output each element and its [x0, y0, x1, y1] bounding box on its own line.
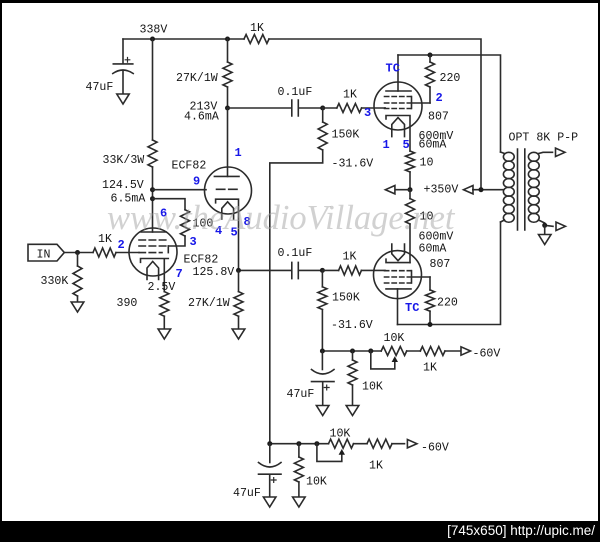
resistor R11 10 (cathode, top 807): [406, 151, 415, 172]
svg-text:125.8V: 125.8V: [193, 266, 235, 279]
svg-text:150K: 150K: [332, 129, 360, 142]
connector arrow +350V (right, to OPT CT): [464, 186, 474, 194]
resistor R20 10K (lower bias bleed): [298, 444, 300, 457]
svg-text:10K: 10K: [330, 428, 351, 441]
svg-text:1K: 1K: [343, 89, 357, 102]
node: rail / 27K branch: [225, 37, 230, 42]
svg-text:-31.6V: -31.6V: [331, 319, 373, 332]
ground (under 330K): [71, 302, 84, 312]
wire: triode grid: [153, 189, 207, 191]
ground (OPT secondary): [539, 235, 552, 245]
op... triode V1b ECF82 (circle): [205, 167, 252, 214]
svg-text:1K: 1K: [250, 22, 264, 35]
OPT secondary winding: [528, 152, 552, 225]
heater chevron (bottom 807): [392, 244, 405, 261]
svg-text:2: 2: [118, 238, 125, 252]
svg-text:1: 1: [383, 138, 390, 152]
resistor R6 1K (grid stopper): [93, 248, 116, 257]
pentode V1a ECF82 (circle): [129, 228, 177, 276]
svg-text:60mA: 60mA: [419, 243, 447, 256]
node: 47uF branch: [267, 441, 272, 446]
plate/top-cap lead down: [397, 289, 399, 325]
svg-text:10K: 10K: [384, 332, 405, 345]
resistor R17 1K (upper bias feed): [420, 347, 445, 356]
node: 338V rail / 33K branch: [150, 37, 155, 42]
resistor R5 390 (cathode): [160, 292, 169, 317]
svg-text:47uF: 47uF: [233, 487, 261, 500]
svg-text:124.5V: 124.5V: [102, 179, 144, 192]
svg-text:47uF: 47uF: [86, 81, 114, 94]
footer bar: [0, 521, 600, 542]
svg-text:-60V: -60V: [421, 442, 449, 455]
capacitor C1 47uF (input supply filter): [113, 39, 133, 94]
connector arrow output +: [556, 148, 566, 156]
tube V3 bottom 807 (circle): [374, 251, 422, 299]
ground (under C5): [263, 497, 276, 507]
svg-text:47uF: 47uF: [287, 388, 315, 401]
capacitor C2 0.1uF (upper coupling): [228, 100, 323, 116]
node: 10K branch: [296, 441, 301, 446]
wire: lower bias rail: [270, 443, 405, 445]
cathode bar + lead (top 807): [386, 116, 410, 152]
svg-text:33K/3W: 33K/3W: [103, 154, 145, 167]
connector arrow output -: [556, 222, 566, 230]
node: pentode plate / 100R: [150, 196, 155, 201]
ground (under 390): [158, 329, 171, 339]
node: 10K branch: [350, 349, 355, 354]
node: 125.8V cathode node: [236, 268, 241, 273]
connector arrow -60V (upper): [461, 347, 471, 355]
ground (under 27K/1W): [232, 329, 245, 339]
svg-text:60mA: 60mA: [419, 139, 447, 152]
svg-text:338V: 338V: [140, 24, 168, 37]
svg-text:ECF82: ECF82: [184, 254, 219, 267]
svg-text:2: 2: [436, 91, 443, 105]
node: lower coupling: [320, 268, 325, 273]
svg-text:1K: 1K: [343, 251, 357, 264]
svg-text:220: 220: [437, 297, 458, 310]
potentiometer 10K (upper bias): [381, 347, 407, 356]
svg-text:1K: 1K: [369, 460, 383, 473]
connector arrow -60V (lower): [407, 440, 417, 448]
pentode screen bracket: [167, 246, 169, 253]
svg-text:390: 390: [117, 297, 138, 310]
wire: bottom top-cap to OPT primary bottom: [398, 222, 501, 325]
wire: g1 into tube: [384, 107, 386, 109]
node: pot terminal: [314, 441, 319, 446]
pentode plate bar: [141, 231, 166, 233]
svg-text:330K: 330K: [41, 275, 69, 288]
svg-text:4.6mA: 4.6mA: [184, 111, 219, 124]
pentode cathode bar + lead pin 7: [141, 259, 169, 292]
resistor R8 1K (g1 stopper top 807): [323, 107, 385, 109]
resistor R12 10 (cathode, bottom 807): [409, 190, 411, 199]
node: pentode plate / triode grid: [150, 187, 155, 192]
svg-text:7: 7: [176, 267, 183, 281]
svg-text:1: 1: [235, 146, 242, 160]
resistor R14 1K (g1 stopper bottom 807): [322, 269, 385, 271]
svg-text:9: 9: [193, 175, 200, 189]
resistor R3 33K/3W: [152, 39, 154, 140]
capacitor C3 0.1uF (lower coupling): [239, 262, 323, 278]
svg-text:TC: TC: [386, 62, 400, 76]
svg-text:ECF82: ECF82: [172, 160, 207, 173]
svg-text:220: 220: [440, 72, 461, 85]
pentode heater chevron: [147, 261, 159, 279]
resistor R13 27K/1W (lower): [238, 270, 240, 291]
tube V2 top 807 (circle): [374, 82, 422, 130]
svg-text:27K/1W: 27K/1W: [176, 72, 218, 85]
triode heater chevron pins 4,5: [222, 202, 234, 219]
node: 220 bottom: [428, 322, 433, 327]
node: 220 top: [428, 53, 433, 58]
svg-text:10K: 10K: [306, 476, 327, 489]
resistor R15 150K (lower grid return): [321, 270, 323, 286]
node: input: [75, 250, 80, 255]
svg-text:2.5V: 2.5V: [148, 281, 176, 294]
svg-text:0.1uF: 0.1uF: [278, 247, 313, 260]
svg-text:5: 5: [403, 138, 410, 152]
node: OPT center tap feed: [479, 187, 484, 192]
wire: input: [64, 252, 93, 254]
OPT primary winding: [501, 152, 515, 222]
grid dashes (top 807): [385, 96, 412, 98]
wire: to bias (-31.6V) long drop: [270, 150, 323, 444]
resistor R7 330K (grid leak): [77, 253, 79, 267]
node: pot terminal: [368, 349, 373, 354]
svg-text:807: 807: [428, 111, 449, 124]
capacitor C5 47uF (lower bias filter): [269, 444, 271, 463]
watermark www.theAudioVillage.net: [107, 199, 527, 238]
node: 47uF branch: [320, 349, 325, 354]
svg-text:-31.6V: -31.6V: [332, 158, 374, 171]
triode plate lead: [227, 108, 229, 176]
connector arrow +350V (left): [395, 189, 410, 191]
svg-text:3: 3: [364, 106, 371, 120]
capacitor C4 47uF (upper bias filter): [321, 351, 323, 370]
ground (under R18): [346, 406, 359, 416]
wire secondary bottom: [545, 225, 553, 226]
svg-text:IN: IN: [37, 249, 51, 262]
svg-text:1K: 1K: [423, 362, 437, 375]
svg-text:-60V: -60V: [473, 348, 501, 361]
pentode grid rows: [139, 239, 167, 241]
svg-text:TC: TC: [405, 301, 419, 315]
top cap plate lead: [397, 55, 399, 91]
plate bar (top 807): [386, 90, 411, 92]
resistor R9 150K (grid return): [322, 108, 324, 122]
resistor R1 1K (rail dropper): [244, 35, 269, 44]
cathode bar + lead (bottom 807): [386, 259, 410, 262]
svg-text:10: 10: [420, 157, 434, 170]
svg-text:10K: 10K: [362, 381, 383, 394]
resistor R10 220 (top screen stopper): [429, 55, 431, 103]
node: upper coupling: [320, 106, 325, 111]
connector IN tag: [28, 244, 64, 261]
OPT core: [518, 149, 525, 230]
grid dashes (bottom 807): [385, 270, 412, 272]
node: 213V plate node: [225, 106, 230, 111]
ground (under C4): [316, 406, 329, 416]
screen bracket + lead to 220 (bottom): [412, 271, 431, 283]
triode grid dashes: [217, 188, 238, 190]
plate bar (bottom 807): [386, 288, 411, 290]
node: secondary ground: [542, 223, 547, 228]
triode cathode bar + lead pin 8: [216, 199, 239, 270]
wire: top cap to OPT primary: [398, 55, 501, 152]
resistor R18 10K (upper bias bleed): [352, 351, 354, 360]
resistor R4 100 (screen to plate): [153, 199, 186, 246]
wire: upper bias rail: [322, 350, 460, 352]
screen bracket + lead to 220: [412, 97, 431, 109]
ground (under 47uF C1): [117, 94, 129, 104]
ground (under R20): [293, 497, 306, 507]
resistor R2 27K/1W (plate load, triode): [227, 39, 229, 108]
svg-text:807: 807: [430, 258, 451, 271]
potentiometer 10K (lower bias): [329, 439, 354, 448]
triode plate bar: [214, 175, 239, 177]
heater chevron pins 1,5 (top 807): [392, 118, 405, 137]
resistor R16 220 (bottom screen stopper): [429, 277, 431, 325]
wiper arm: [371, 351, 395, 369]
svg-text:+350V: +350V: [424, 184, 459, 197]
svg-text:150K: 150K: [332, 292, 360, 305]
svg-text:0.1uF: 0.1uF: [278, 86, 313, 99]
node: +350V / cathodes: [408, 187, 413, 192]
svg-text:27K/1W: 27K/1W: [188, 297, 230, 310]
wiper arm: [317, 444, 342, 462]
resistor R19 1K (lower bias feed): [367, 439, 392, 448]
svg-text:OPT 8K P-P: OPT 8K P-P: [509, 132, 579, 145]
wire: top B+ rail 338V: [123, 39, 481, 190]
